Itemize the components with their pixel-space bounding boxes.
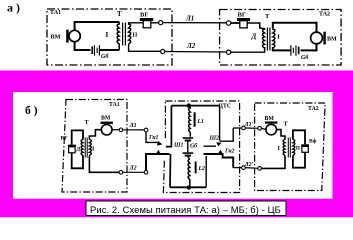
plug wire right lower jack [204, 154, 234, 168]
svg-text:ТА2: ТА2 [308, 106, 319, 112]
battery GB (a, TA2) [290, 45, 299, 55]
receiver BF (b, TA2) [301, 144, 309, 152]
svg-text:Gб: Gб [101, 53, 109, 60]
svg-text:Т: Т [117, 10, 122, 18]
wire winding II bottom to terminal (a, TA2) [231, 47, 265, 52]
wire BF to terminal (a, TA1) [151, 22, 159, 24]
magenta frame [0, 71, 353, 218]
terminal circle TA2 bottom [227, 50, 231, 54]
transformer T (b, TA2) winding II [293, 140, 295, 156]
terminal circle L2' inner [258, 167, 262, 171]
wire mic left to winding I top (b, TA1) [89, 130, 101, 140]
wire right lower to terminal [233, 167, 241, 169]
CTS box (scheme b) [163, 101, 239, 193]
svg-text:II: II [132, 32, 138, 39]
microphone BM (a, TA1) [66, 30, 80, 43]
svg-text:Л1: Л1 [129, 123, 137, 129]
svg-text:Вф: Вф [309, 138, 317, 145]
line L2 wire [165, 51, 227, 54]
plug arrow right lower [218, 150, 223, 155]
svg-text:ТА1: ТА1 [50, 10, 61, 16]
plug arrow lower left [156, 150, 161, 155]
wire L1 between terminals (b) [123, 129, 145, 131]
terminal circle L2 outer [144, 171, 148, 175]
transformer T (a, TA1) winding I [117, 22, 119, 50]
wire battery to winding I bottom (a, TA1) [100, 49, 119, 51]
wire mic top to transformer (a, TA1) [75, 22, 120, 30]
wire terminal to mic (b, TA2) [261, 128, 266, 129]
transformer T (a, TA2) winding II [263, 28, 265, 48]
microphone BM (b, TA2) [265, 121, 277, 135]
receiver loop wire (b, TA1) [72, 130, 83, 168]
inductor L1 (CTS) [189, 106, 191, 137]
TA1 box (scheme a) [47, 9, 172, 65]
svg-text:ВМ: ВМ [51, 34, 61, 41]
transformer T (a, TA2) winding I [273, 28, 275, 48]
svg-text:ВМ: ВМ [327, 37, 337, 43]
CTS left vertical lower [169, 154, 172, 187]
receiver loop wire (b, TA2) [293, 130, 305, 167]
plug arrow right upper [216, 142, 221, 146]
wire terminal to receiver (a, TA2) [231, 22, 240, 24]
wire receiver to winding (a, TA2) [247, 23, 264, 29]
svg-text:ВГ: ВГ [238, 12, 246, 19]
svg-text:Л2': Л2' [244, 162, 254, 168]
CTS right vertical lower [205, 156, 207, 187]
svg-text:ТА1: ТА1 [109, 102, 120, 108]
terminal circle L1 inner [119, 128, 123, 132]
svg-text:б): б) [25, 105, 41, 117]
transformer T (a, TA1) core [123, 23, 126, 46]
svg-text:Л1': Л1' [244, 122, 254, 128]
svg-text:Л2: Л2 [129, 165, 137, 171]
TA2 box (scheme b) [255, 103, 326, 191]
svg-text:ВF: ВF [140, 12, 148, 19]
plug wire right upper [220, 128, 233, 141]
receiver BF (b, TA1) [68, 145, 76, 153]
transformer T (b, TA1) winding I [89, 140, 91, 156]
wire L2 between terminals (b) [123, 171, 145, 173]
svg-text:ЦТС: ЦТС [219, 104, 232, 110]
svg-text:Гн2: Гн2 [224, 149, 235, 155]
svg-text:Гн1: Гн1 [148, 135, 159, 141]
CTS left vertical upper with jack hook [166, 106, 172, 147]
wire L2' between terminals [245, 167, 257, 170]
svg-text:ВМ: ВМ [101, 116, 111, 122]
junction dot top [187, 103, 191, 107]
battery GB (a, TA1) [91, 45, 100, 55]
wire mic to winding I top (b, TA2) [277, 130, 286, 140]
wire mic right to terminal (b, TA1) [112, 129, 119, 131]
transformer T (b, TA2) core [288, 138, 290, 158]
wire mic bottom to battery (a, TA1) [75, 42, 91, 50]
svg-text:Т: Т [265, 13, 270, 20]
wire winding II top to BF (a, TA1) [129, 22, 144, 25]
TA2 box (scheme a) [220, 10, 342, 66]
transformer T (a, TA1) winding II [129, 24, 131, 44]
terminal circle L1' outer [242, 126, 246, 130]
transformer T (b, TA1) core [85, 138, 87, 158]
svg-text:L2: L2 [198, 166, 206, 172]
receiver VG (a, TA2) [237, 18, 250, 28]
transformer T (b, TA2) winding I [283, 140, 285, 156]
wire winding II bottom to terminal (a, TA1) [129, 44, 161, 51]
wire right upper to terminal [233, 127, 241, 129]
plug wire Gn1 (b left upper) [146, 132, 159, 143]
battery GB (CTS) [183, 137, 194, 159]
microphone BM (b, TA1) [101, 122, 113, 135]
svg-text:Ш1: Ш1 [173, 143, 184, 149]
svg-text:Л1: Л1 [185, 15, 194, 23]
caption box [86, 201, 286, 216]
microphone BM (a, TA2) [311, 32, 326, 45]
svg-text:I: I [106, 31, 109, 39]
transformer T (b, TA1) winding D [81, 140, 83, 156]
terminal circle TA1 bottom [161, 49, 165, 53]
wire winding I bottom to terminal L2 (b, TA1) [89, 156, 119, 173]
terminal circle L2 inner [119, 171, 123, 175]
wire winding I top to mic (a, TA2) [273, 23, 317, 32]
terminal circle TA1 top [159, 21, 163, 25]
svg-text:Рис. 2. Схемы питания ТА: а) –: Рис. 2. Схемы питания ТА: а) – МБ; б) - … [90, 204, 281, 215]
terminal circle L1' inner [258, 127, 262, 131]
svg-text:II: II [296, 146, 300, 152]
receiver BF (a, TA1) [140, 18, 154, 28]
TA1 box (scheme b) [62, 100, 127, 193]
wire winding I bottom to terminal L2' (b, TA2) [261, 156, 285, 169]
junction dot bottom [187, 185, 191, 189]
terminal circle L2' outer [242, 166, 246, 170]
svg-text:Д: Д [251, 32, 257, 40]
wire L1' between terminals [245, 127, 257, 129]
svg-text:ВF: ВF [61, 136, 69, 142]
CTS right vertical upper with jack hook [204, 106, 220, 147]
svg-text:Gб: Gб [190, 142, 198, 149]
svg-text:Ш2: Ш2 [209, 136, 220, 142]
CTS bottom rail [170, 186, 206, 188]
wire mic bottom to battery (a, TA2) [301, 44, 317, 51]
transformer T (a, TA2) core [267, 28, 270, 51]
terminal circle L1 outer [144, 128, 148, 132]
svg-text:Д: Д [76, 147, 81, 153]
CTS top rail [171, 105, 219, 107]
svg-text:Gб: Gб [301, 54, 309, 61]
wire battery to winding I bottom (a, TA2) [273, 47, 291, 50]
svg-text:Л2: Л2 [186, 42, 196, 50]
plug wire lower left [146, 154, 170, 171]
svg-text:ВМ: ВМ [265, 116, 275, 122]
svg-text:а): а) [7, 0, 23, 14]
plug arrow upper left [157, 141, 163, 146]
terminal circle TA2 top [226, 21, 230, 25]
svg-text:L1: L1 [197, 119, 205, 125]
inductor L2 (CTS) [188, 159, 190, 187]
svg-text:ТА2: ТА2 [319, 12, 330, 18]
line L1 wire [163, 22, 227, 24]
